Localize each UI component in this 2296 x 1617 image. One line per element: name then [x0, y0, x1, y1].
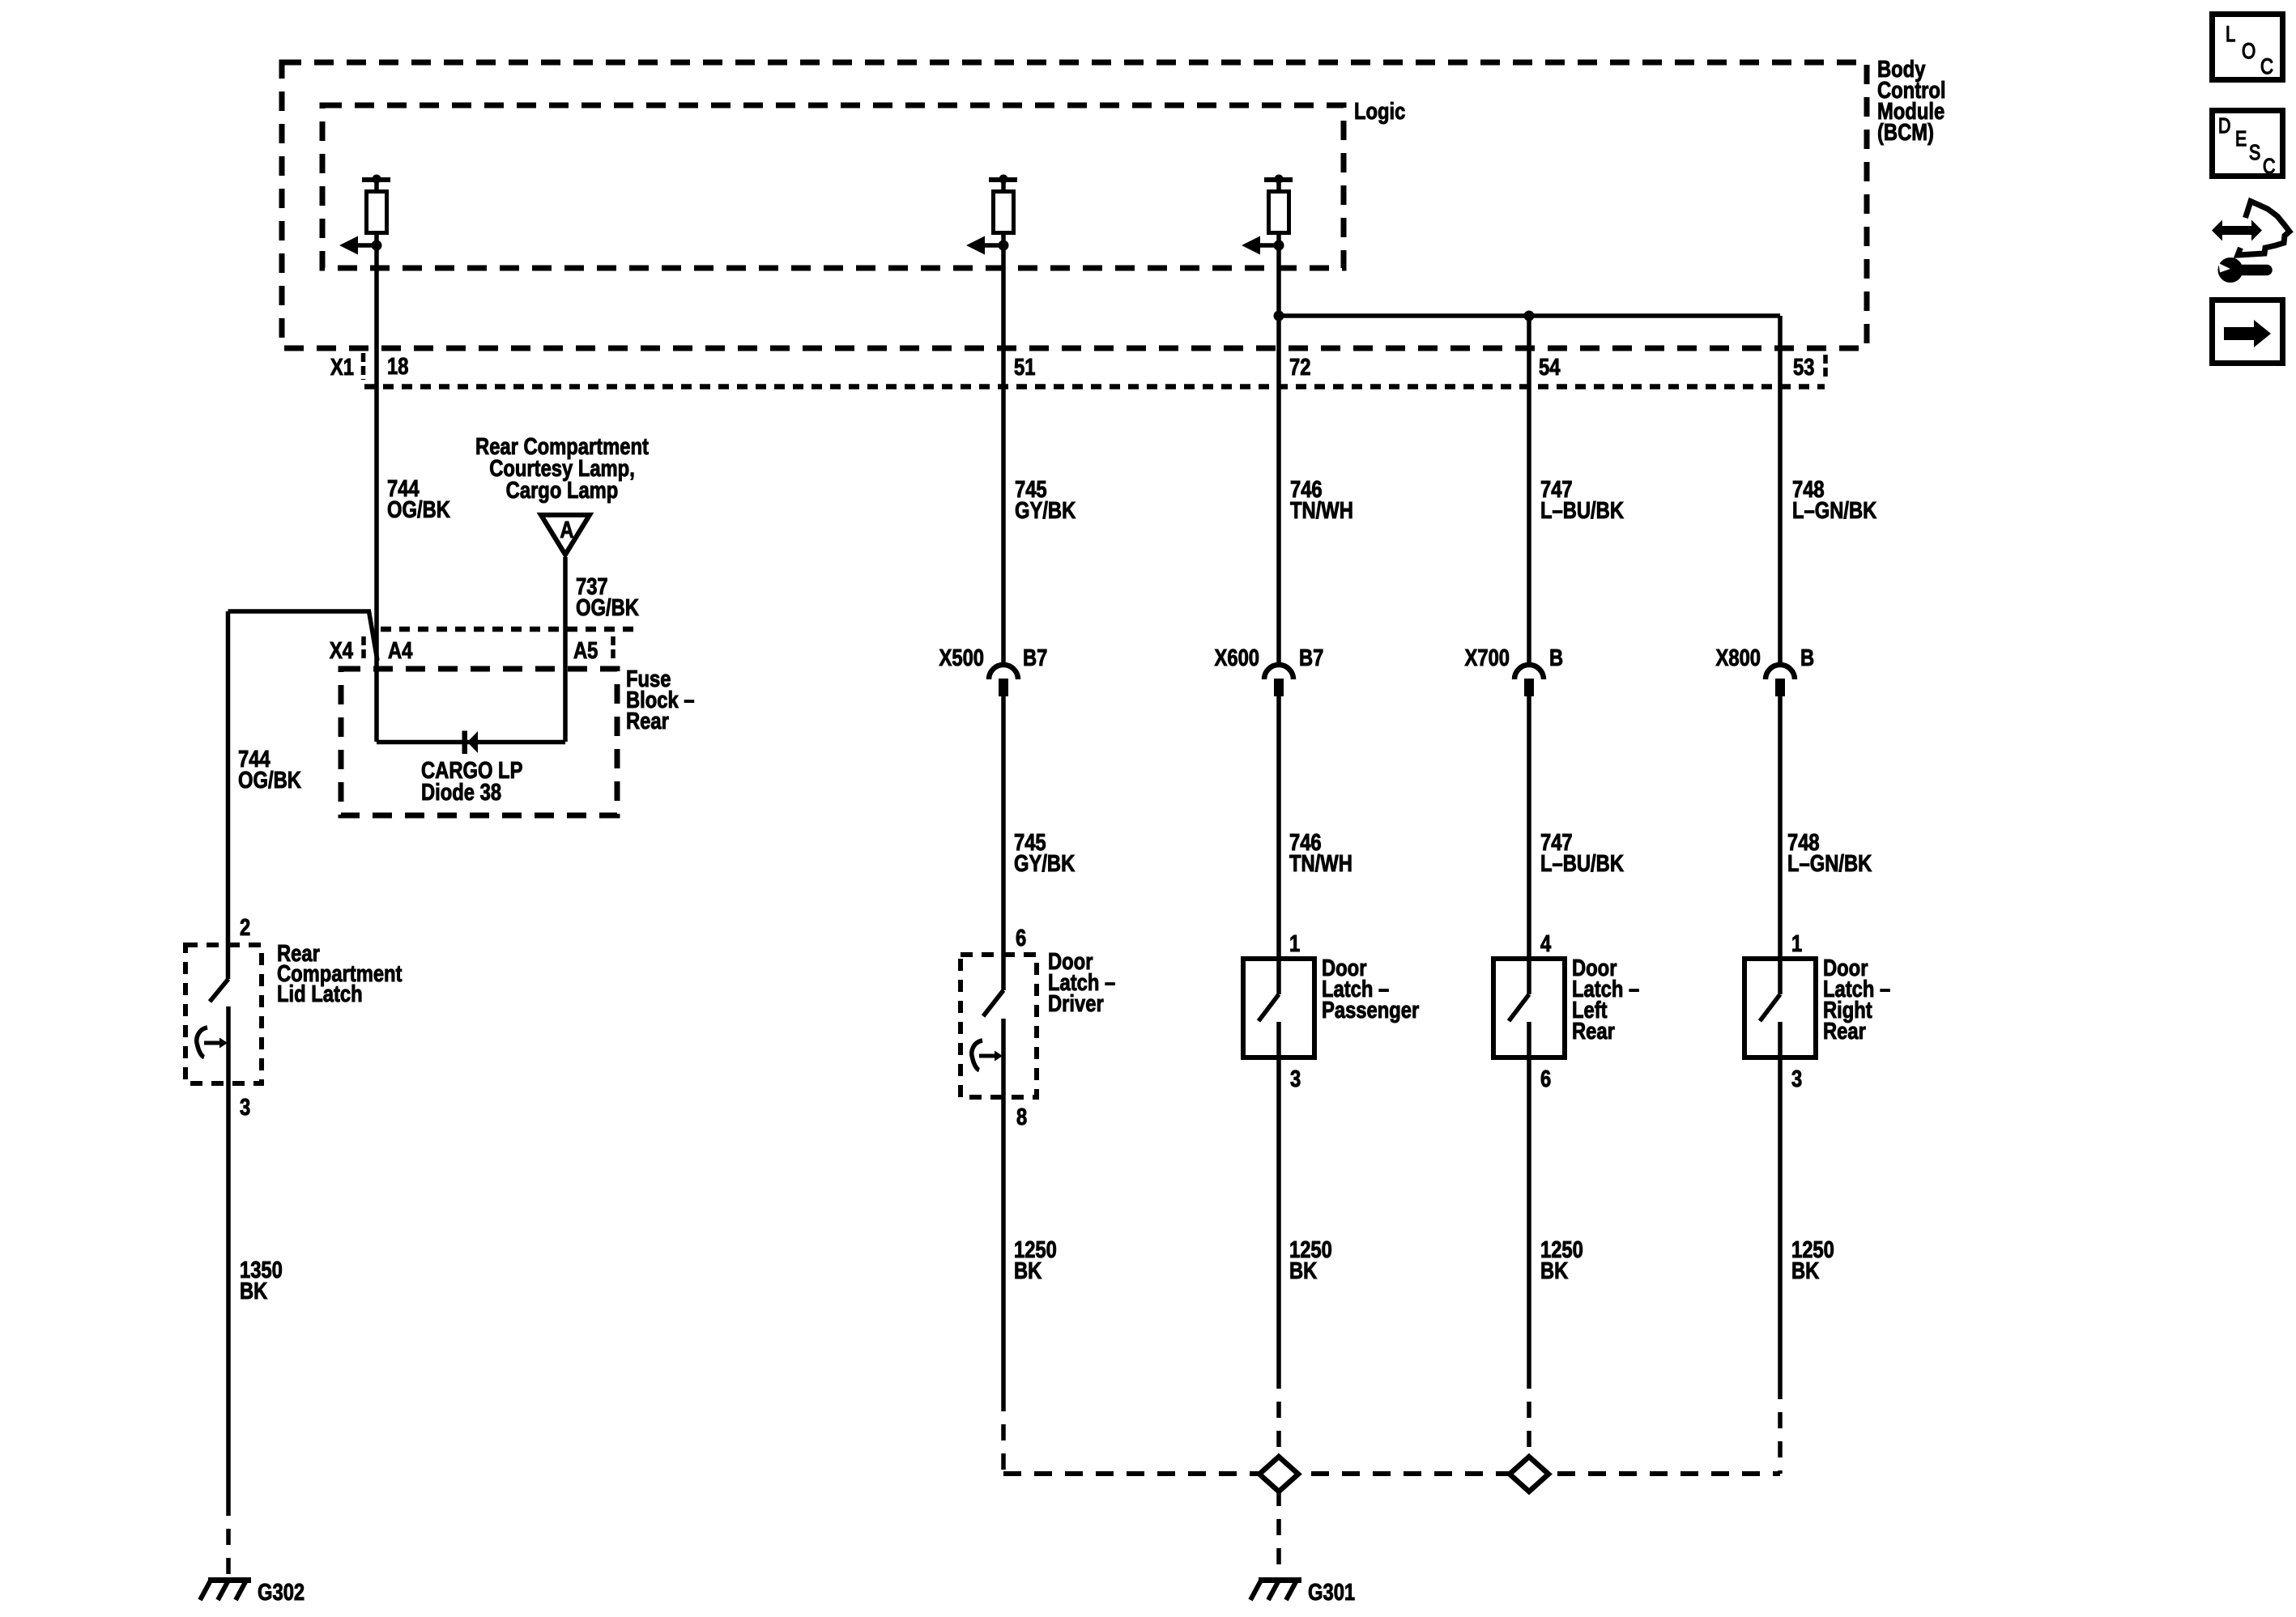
svg-text:54: 54: [1539, 354, 1561, 381]
svg-text:L: L: [2226, 23, 2235, 47]
svg-text:D: D: [2218, 114, 2230, 138]
svg-text:GY/BK: GY/BK: [1015, 497, 1076, 524]
svg-text:BK: BK: [1540, 1257, 1568, 1284]
svg-text:3: 3: [1290, 1066, 1301, 1092]
svg-text:X600: X600: [1215, 645, 1259, 671]
svg-text:X1: X1: [330, 354, 354, 381]
svg-text:A4: A4: [388, 637, 413, 664]
svg-text:GY/BK: GY/BK: [1014, 850, 1075, 877]
svg-text:BK: BK: [1014, 1257, 1042, 1284]
svg-text:C: C: [2263, 155, 2275, 179]
svg-text:51: 51: [1014, 354, 1035, 381]
svg-text:2: 2: [240, 914, 250, 941]
svg-text:4: 4: [1540, 930, 1551, 957]
svg-text:G301: G301: [1308, 1579, 1355, 1606]
svg-text:G302: G302: [258, 1579, 305, 1606]
svg-text:A: A: [560, 517, 573, 543]
svg-text:(BCM): (BCM): [1877, 119, 1934, 146]
svg-text:53: 53: [1793, 354, 1814, 381]
svg-text:1: 1: [1791, 930, 1802, 957]
svg-text:18: 18: [387, 353, 408, 380]
svg-text:X500: X500: [939, 645, 984, 671]
svg-text:B: B: [1800, 645, 1814, 671]
svg-text:A5: A5: [573, 637, 598, 664]
svg-text:L–GN/BK: L–GN/BK: [1792, 497, 1876, 524]
svg-text:1: 1: [1289, 930, 1300, 957]
svg-text:6: 6: [1016, 925, 1026, 951]
svg-text:B7: B7: [1299, 645, 1323, 671]
svg-text:O: O: [2242, 40, 2256, 64]
svg-text:Cargo Lamp: Cargo Lamp: [506, 477, 619, 504]
svg-text:8: 8: [1016, 1104, 1027, 1130]
svg-text:Passenger: Passenger: [1322, 997, 1419, 1023]
svg-text:6: 6: [1540, 1066, 1551, 1092]
svg-text:L–GN/BK: L–GN/BK: [1787, 850, 1872, 877]
svg-text:Diode 38: Diode 38: [421, 779, 501, 806]
svg-text:3: 3: [1791, 1066, 1802, 1092]
svg-text:BK: BK: [240, 1278, 267, 1304]
svg-text:OG/BK: OG/BK: [238, 767, 301, 794]
svg-text:Rear: Rear: [1823, 1018, 1866, 1045]
svg-text:C: C: [2260, 55, 2273, 79]
svg-text:3: 3: [240, 1094, 250, 1121]
svg-text:X700: X700: [1465, 645, 1510, 671]
svg-text:E: E: [2235, 127, 2247, 151]
svg-text:72: 72: [1289, 354, 1310, 381]
svg-text:BK: BK: [1289, 1257, 1317, 1284]
svg-text:L–BU/BK: L–BU/BK: [1540, 497, 1624, 524]
svg-text:Rear: Rear: [626, 708, 669, 734]
svg-text:OG/BK: OG/BK: [576, 594, 639, 621]
svg-text:X4: X4: [330, 637, 353, 664]
svg-text:TN/WH: TN/WH: [1289, 850, 1352, 877]
svg-text:L–BU/BK: L–BU/BK: [1540, 850, 1624, 877]
svg-text:B7: B7: [1023, 645, 1047, 671]
svg-text:BK: BK: [1791, 1257, 1819, 1284]
svg-text:B: B: [1549, 645, 1563, 671]
svg-text:Driver: Driver: [1048, 990, 1104, 1017]
svg-text:OG/BK: OG/BK: [387, 496, 450, 523]
svg-text:X800: X800: [1716, 645, 1761, 671]
svg-text:Logic: Logic: [1354, 98, 1405, 125]
svg-text:Lid Latch: Lid Latch: [277, 981, 363, 1007]
svg-text:TN/WH: TN/WH: [1290, 497, 1353, 524]
svg-text:S: S: [2249, 141, 2260, 165]
svg-text:Rear: Rear: [1572, 1018, 1615, 1045]
